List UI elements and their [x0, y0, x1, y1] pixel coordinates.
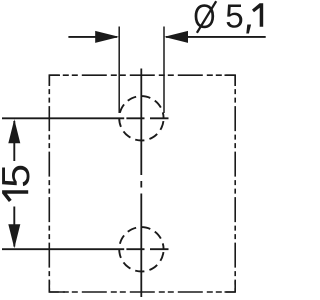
arrowhead 15 down	[8, 224, 20, 248]
label 15 value digit 1 (rotated)	[2, 190, 28, 202]
arrowhead diameter right	[164, 31, 188, 43]
dimension line 15, upper part	[13, 121, 15, 161]
svg-text:5: 5	[225, 0, 243, 35]
svg-text:5: 5	[0, 164, 37, 188]
part outline right edge	[234, 75, 236, 292]
label digit 1 of 5,1	[252, 3, 263, 26]
part outline bottom edge	[49, 291, 235, 293]
svg-text:O: O	[193, 0, 215, 36]
extension line left (tangent of top hole)	[118, 27, 120, 114]
outline corner top-left	[49, 75, 60, 86]
extension line right (tangent of top hole)	[163, 27, 165, 114]
part outline left edge	[48, 75, 50, 292]
center line horizontal bottom hole	[2, 248, 169, 250]
hole circle top (hidden, dashed)	[119, 96, 163, 140]
part outline (phantom rectangle) top edge	[49, 74, 235, 76]
label diameter symbol slash	[197, 1, 216, 33]
outline corner bottom-left	[49, 281, 65, 292]
dimension line diameter, right part	[166, 36, 266, 38]
outline corner top-right	[225, 75, 236, 86]
label comma of 5,1	[246, 25, 251, 34]
dimension line 15, lower part	[13, 207, 15, 247]
center line horizontal top hole	[2, 117, 169, 119]
arrowhead 15 up	[8, 119, 20, 143]
hole circle bottom (hidden, dashed)	[119, 227, 163, 271]
center line vertical through holes	[140, 69, 142, 298]
dimension line diameter, left part	[68, 36, 117, 38]
arrowhead diameter left	[95, 31, 119, 43]
outline corner bottom-right	[225, 281, 236, 292]
